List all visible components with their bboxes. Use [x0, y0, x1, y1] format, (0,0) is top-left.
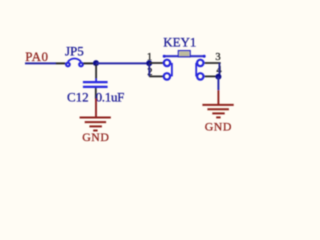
jumper JP5 arc — [68, 58, 81, 61]
ground bar 2 (right) — [207, 108, 229, 110]
svg-text:JP5: JP5 — [65, 44, 84, 59]
ground bar 2 (left) — [85, 121, 106, 123]
svg-text:3: 3 — [215, 52, 220, 63]
junction node KEY1 left — [146, 60, 152, 66]
GND power port stem (right) — [217, 90, 219, 105]
KEY1 bottom-right contact circle — [197, 73, 203, 79]
junction node at C12 — [93, 60, 99, 66]
ground bar 1 (left) — [80, 117, 111, 119]
KEY1 left vertical wire — [148, 63, 150, 76]
KEY1 top-left contact circle — [164, 60, 170, 66]
svg-text:C12: C12 — [67, 90, 89, 105]
ground bar 4 (left) — [93, 130, 97, 132]
svg-text:0.1uF: 0.1uF — [96, 90, 125, 105]
jumper JP5 pin 1 lead — [56, 62, 66, 64]
KEY1 pin 1 lead — [149, 62, 164, 64]
svg-text:1: 1 — [147, 52, 152, 63]
wire PA0 to JP5 (blue) — [25, 62, 56, 64]
svg-text:GND: GND — [205, 119, 232, 133]
capacitor C12 top plate — [83, 81, 108, 83]
KEY1 pin 4 lead — [205, 75, 219, 77]
KEY1 keycap — [178, 51, 190, 57]
GND power port stem (left) — [95, 99, 97, 118]
ground bar 1 (right) — [202, 104, 233, 106]
capacitor C12 pin lower — [95, 88, 97, 99]
svg-text:GND: GND — [82, 130, 109, 144]
KEY1 right contact connector — [195, 63, 197, 77]
capacitor C12 pin upper — [95, 65, 97, 79]
junction node KEY1 right — [215, 74, 221, 80]
KEY1 top-right contact circle — [197, 60, 203, 66]
keycap hatch line 1 — [180, 52, 189, 54]
KEY1 left contact connector — [171, 63, 173, 77]
capacitor C12 top stub (blue) — [95, 79, 97, 82]
KEY1 right vertical wire — [218, 63, 220, 77]
capacitor C12 bottom plate — [83, 86, 108, 88]
actuator bar right tip — [203, 55, 206, 58]
KEY1 pin 2 lead — [149, 75, 164, 77]
svg-text:PA0: PA0 — [25, 49, 48, 64]
jumper JP5 pin 2 lead — [83, 62, 96, 64]
jumper JP5 left circle — [66, 63, 70, 67]
actuator bar left tip — [163, 55, 166, 58]
KEY1 bottom-left contact circle — [164, 73, 170, 79]
keycap hatch line 3 — [180, 55, 189, 57]
ground bar 3 (right) — [212, 112, 224, 114]
ground bar 4 (right) — [216, 116, 220, 118]
KEY1 actuator bar — [164, 55, 204, 57]
KEY1 pin 3 lead — [205, 62, 221, 64]
wire KEY1 to GND (blue) — [217, 77, 219, 91]
wire junction to KEY1 (blue) — [96, 62, 149, 64]
ground bar 3 (left) — [89, 125, 102, 127]
keycap hatch line 2 — [180, 53, 189, 55]
svg-text:KEY1: KEY1 — [163, 35, 196, 50]
jumper JP5 right circle — [79, 63, 83, 67]
